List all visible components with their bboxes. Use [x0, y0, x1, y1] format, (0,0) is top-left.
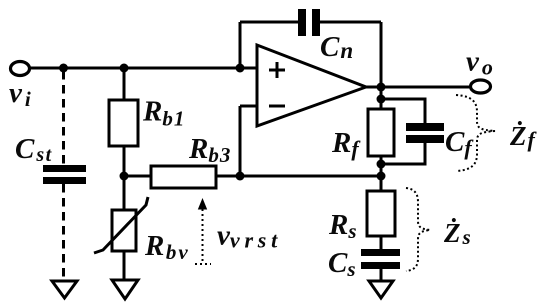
node at plus input [236, 64, 245, 73]
op-amp U1 [257, 45, 366, 126]
wire main input [29, 67, 257, 70]
ground under Cs [369, 281, 393, 298]
wire top right segment from Cn [320, 21, 381, 24]
wire Rbv top [123, 176, 126, 210]
resistor Rb3 [151, 166, 216, 188]
wire Cst dashed bottom [62, 184, 65, 280]
brace Zs [406, 188, 430, 271]
terminal vo [471, 80, 491, 93]
wire Rbv bottom [123, 251, 126, 280]
wire Cs to ground [380, 269, 383, 281]
arrow vvrst [195, 198, 211, 264]
resistor Rbv [94, 197, 148, 253]
wire output to vo [366, 86, 470, 89]
node at Cf bottom [377, 160, 386, 169]
capacitor Cs [361, 249, 400, 269]
resistor Rf [368, 109, 394, 156]
resistor Rs [367, 191, 395, 236]
resistor Rb1 [109, 100, 138, 146]
capacitor Cn [298, 9, 320, 36]
node on input at Rb1 [120, 64, 129, 73]
ground under Rbv [112, 280, 138, 299]
node at Rb3 right [236, 172, 245, 181]
node at Rb1 bottom [120, 172, 129, 181]
wire top left segment to Cn [240, 21, 298, 24]
wire Cf top branch [381, 99, 425, 123]
wire Rb3 left [124, 175, 151, 178]
brace Zf [456, 95, 495, 171]
terminal vi [11, 62, 30, 76]
node at Cf top [377, 95, 386, 104]
ground under Cst [52, 281, 77, 298]
capacitor Cst [43, 165, 86, 184]
wire left vertical to top [239, 22, 242, 68]
wire Rf bottom to Rs [380, 156, 383, 191]
node at Zs top [377, 172, 386, 181]
wire Rb1 bottom [123, 146, 126, 176]
wire Rf top [380, 87, 383, 109]
wire feedback horizontal [216, 175, 381, 178]
node at output [377, 83, 386, 92]
wire Cf bottom branch [381, 143, 425, 164]
wire Rb1 top [123, 68, 126, 100]
wire minus input stub [240, 105, 257, 108]
node on input at Cst [59, 64, 68, 73]
wire Cst dashed top [62, 71, 65, 165]
wire right vertical to output node [380, 22, 383, 87]
wire Rs to Cs [380, 236, 383, 249]
wire minus input vertical [239, 106, 242, 176]
capacitor Cf [406, 123, 444, 143]
